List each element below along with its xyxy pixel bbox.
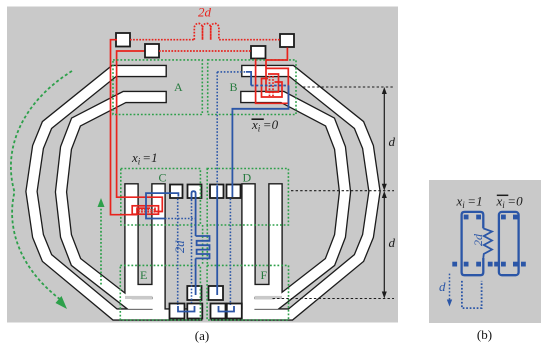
middle ring right arc casing	[240, 97, 345, 304]
dotted U (b)	[462, 281, 482, 308]
bottom stub right core	[245, 285, 281, 297]
center right vertical guide	[206, 225, 208, 265]
svg-text:d: d	[389, 134, 396, 149]
red dotted meander in B	[270, 76, 274, 96]
pad D2	[227, 185, 241, 199]
red switch C loop	[132, 206, 158, 214]
ring strips: white cores	[32, 71, 375, 315]
blue hook E lower	[178, 306, 195, 312]
outer ring core	[32, 71, 202, 315]
blue wire D pad1 down to F pad	[216, 186, 218, 295]
red bias network	[111, 40, 289, 215]
dimension leaders	[273, 87, 395, 299]
red dotted meander in C	[138, 210, 155, 212]
pad T3	[251, 46, 266, 59]
box E	[120, 265, 200, 320]
zigzag inductor (b)	[483, 228, 492, 258]
svg-text:C: C	[159, 171, 167, 185]
pad F3 lower	[227, 304, 242, 319]
svg-text:xi=1: xi=1	[131, 150, 158, 167]
green dotted region boxes	[113, 60, 296, 320]
box D	[207, 169, 288, 226]
pad T2	[145, 44, 159, 58]
pad F1 upper	[209, 286, 224, 300]
blue wire B to D pad2	[231, 110, 233, 197]
middle ring left arc core	[61, 97, 166, 304]
red dotted feed lines	[130, 23, 280, 211]
pad C2	[188, 185, 202, 199]
blue wire meander to pad E1	[195, 258, 197, 295]
blue hook F lower	[219, 306, 235, 312]
gray gap between stub and mid-bottom strips	[125, 296, 152, 299]
svg-text:d: d	[389, 235, 396, 250]
blue wire C pad2 hook to meander	[192, 191, 196, 236]
blue dotted B left	[217, 71, 246, 73]
box C	[121, 169, 201, 226]
green dotted vertical arrow in C/E	[100, 205, 102, 285]
blue dotted guides	[165, 72, 246, 305]
leader top	[303, 86, 394, 88]
blue bar 2	[499, 212, 519, 275]
blue dotted C wrap right	[165, 218, 196, 220]
inner vertical V1 left casing	[124, 183, 139, 296]
blue dashed segment in B	[251, 85, 288, 87]
svg-text:B: B	[230, 80, 238, 94]
box B	[208, 60, 296, 115]
blue meander 2d	[196, 236, 210, 258]
bottom stub right casing	[244, 284, 281, 299]
blue bar 1 with zigzag notch	[462, 212, 484, 275]
inner vertical V2' right casing	[241, 183, 256, 313]
inner vertical V2 left casing	[151, 183, 166, 313]
inner vertical V2 left core	[153, 185, 165, 314]
box F	[207, 265, 288, 320]
blue dotted C pad1 down	[177, 199, 179, 306]
red switch C inner	[137, 208, 150, 215]
pad C1	[170, 185, 183, 199]
pad T4	[280, 34, 294, 47]
middle ring left arc casing	[61, 97, 167, 304]
red switch B small loop	[262, 79, 283, 98]
inner vertical V2' right core	[243, 185, 255, 314]
pad T1	[116, 33, 130, 47]
svg-text:xi=1: xi=1	[456, 194, 483, 210]
svg-text:(b): (b)	[477, 327, 492, 342]
blue dotted B to D pad1	[216, 72, 218, 192]
panel b background	[429, 180, 541, 323]
leader bottom	[273, 298, 395, 300]
center left vertical guide	[202, 225, 204, 265]
svg-text:(a): (a)	[195, 328, 209, 343]
svg-text:E: E	[140, 268, 147, 282]
outer ring casing	[32, 71, 203, 315]
dimension arrow d bottom	[383, 194, 385, 296]
pad E3 lower	[187, 304, 202, 319]
inner vertical V1 left core	[126, 185, 138, 297]
black state labels	[131, 117, 279, 167]
box A	[113, 60, 202, 115]
red wire T4 drop + B switch inner loop	[266, 48, 287, 93]
svg-text:2d: 2d	[471, 233, 485, 246]
panel a background	[7, 7, 398, 323]
bottom stub left casing	[126, 284, 163, 299]
svg-text:F: F	[261, 268, 268, 282]
middle ring right arc core	[242, 97, 346, 304]
pad D1	[210, 185, 224, 199]
blue bias network	[146, 72, 289, 312]
svg-text:A: A	[174, 80, 183, 94]
terminal squares bar2	[501, 215, 506, 220]
blue dotted C pad2 down	[191, 200, 193, 304]
green arc arrowhead	[56, 296, 68, 309]
ring strips: black casings	[32, 71, 375, 315]
red dotted T2-T3 line	[159, 50, 251, 52]
inner vertical V1' right core	[270, 185, 282, 297]
pads: white squares with black outline	[116, 33, 294, 319]
blue wire C wrap	[146, 193, 178, 218]
bottom stub left core	[127, 285, 163, 297]
dimension arrow d top	[382, 87, 387, 299]
terminal squares bar1	[452, 215, 526, 267]
blue wire B wrap	[246, 72, 251, 86]
svg-text:d: d	[439, 279, 446, 294]
green dashed rotation arc	[11, 71, 72, 300]
green region letters	[140, 80, 268, 282]
red wire T3 drop + B switch outer loop	[256, 59, 289, 104]
pad F2 lower	[211, 304, 226, 319]
red wire T2 drop (under pad T1)	[117, 51, 163, 212]
svg-text:2d: 2d	[173, 240, 187, 253]
red dotted meander 2d	[194, 23, 219, 39]
pad E1 upper	[187, 286, 201, 300]
leader middle	[291, 190, 394, 192]
inner vertical V1' right casing	[268, 183, 283, 296]
svg-text:D: D	[243, 171, 252, 185]
svg-text:2d: 2d	[198, 5, 212, 20]
red wire T1 left drop	[111, 40, 138, 215]
blue dotted F down	[229, 199, 231, 306]
red dotted T1-T4 line	[130, 39, 194, 41]
pad E2 lower	[170, 304, 185, 319]
